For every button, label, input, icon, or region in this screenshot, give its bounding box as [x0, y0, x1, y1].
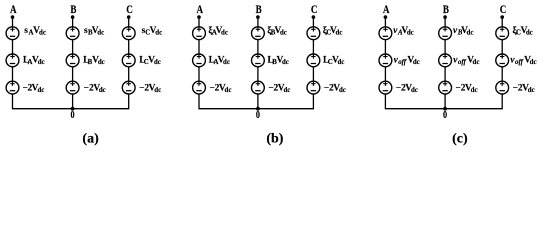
- voltage source phase C row 1 (fig c): [496, 27, 509, 40]
- value label phase C row 2 (fig c): [510, 55, 536, 66]
- svg-text:A: A: [383, 4, 390, 16]
- svg-text:0: 0: [71, 110, 75, 121]
- node 0 junction (fig a): [71, 107, 75, 111]
- wire between sources row1-2 phase B (fig b): [257, 40, 259, 54]
- value label phase B row 1 (fig a): [84, 26, 104, 37]
- value label phase B row 2 (fig a): [83, 55, 105, 66]
- wire between sources row2-3 phase C (fig a): [128, 67, 130, 81]
- svg-text:dc: dc: [280, 30, 287, 37]
- value label phase A row 1 (fig a): [24, 26, 46, 37]
- wire between sources row2-3 phase A (fig b): [198, 67, 200, 81]
- value label phase A row 2 (fig b): [209, 55, 230, 66]
- value label phase A row 1 (fig b): [208, 25, 228, 37]
- voltage source phase A row 3 (fig c): [379, 81, 392, 94]
- wire between sources row1-2 phase A (fig c): [384, 40, 386, 54]
- value label phase B row 3 (fig a): [84, 84, 106, 95]
- svg-text:C: C: [311, 4, 318, 16]
- voltage source phase C row 3 (fig b): [307, 81, 320, 94]
- value label phase B row 1 (fig c): [453, 26, 473, 37]
- wire between sources row2-3 phase B (fig a): [72, 67, 74, 81]
- voltage source phase B row 1 (fig c): [439, 27, 452, 40]
- svg-text:dc: dc: [38, 59, 45, 66]
- wire terminal A to first source (fig c): [384, 17, 386, 27]
- svg-text:dc: dc: [467, 30, 474, 37]
- wire between sources row2-3 phase C (fig c): [501, 67, 503, 81]
- svg-text:dc: dc: [39, 30, 46, 37]
- svg-text:C: C: [126, 4, 133, 16]
- voltage source phase B row 1 (fig b): [252, 27, 265, 40]
- svg-text:dc: dc: [530, 59, 537, 66]
- terminal node A (fig a): [11, 15, 15, 19]
- voltage source phase B row 3 (fig b): [252, 81, 265, 94]
- value label phase C row 3 (fig a): [139, 84, 161, 95]
- value label phase A row 2 (fig a): [23, 55, 45, 66]
- wire between sources row1-2 phase A (fig b): [198, 40, 200, 54]
- voltage source phase A row 1 (fig a): [6, 27, 19, 40]
- svg-text:dc: dc: [37, 87, 44, 94]
- value label phase A row 2 (fig c): [394, 55, 420, 66]
- terminal node A (fig c): [384, 15, 388, 19]
- svg-text:B: B: [256, 4, 262, 16]
- wire terminal B to first source (fig b): [257, 17, 259, 27]
- svg-text:dc: dc: [411, 87, 418, 94]
- terminal node B (fig c): [443, 15, 447, 19]
- wire between sources row2-3 phase B (fig b): [257, 67, 259, 81]
- bus wire with phase A/C down-wires (fig a): [13, 94, 129, 109]
- svg-text:C: C: [500, 4, 507, 16]
- wire between sources row1-2 phase C (fig a): [128, 40, 130, 54]
- voltage source phase C row 1 (fig a): [122, 27, 135, 40]
- value label phase C row 1 (fig c): [513, 25, 533, 37]
- voltage source phase A row 1 (fig b): [193, 27, 206, 40]
- voltage source phase B row 2 (fig c): [439, 54, 452, 67]
- wire phase B to bus (fig c): [444, 94, 446, 109]
- svg-text:(c): (c): [452, 131, 468, 146]
- value label phase A row 1 (fig c): [393, 26, 413, 37]
- bus wire with phase A/C down-wires (fig b): [199, 94, 313, 109]
- terminal node C (fig a): [127, 15, 131, 19]
- voltage source phase C row 3 (fig a): [122, 81, 135, 94]
- bus wire with phase A/C down-wires (fig c): [385, 94, 502, 109]
- svg-text:0: 0: [443, 110, 447, 121]
- value label phase B row 2 (fig b): [268, 55, 289, 66]
- svg-text:dc: dc: [337, 59, 344, 66]
- voltage source phase A row 2 (fig c): [379, 54, 392, 67]
- voltage source phase C row 1 (fig b): [307, 27, 320, 40]
- svg-text:off: off: [458, 59, 467, 66]
- wire between sources row2-3 phase A (fig c): [384, 67, 386, 81]
- svg-text:dc: dc: [221, 30, 228, 37]
- voltage source phase B row 3 (fig c): [439, 81, 452, 94]
- value label phase C row 1 (fig b): [323, 25, 343, 37]
- wire terminal A to first source (fig a): [12, 17, 14, 27]
- svg-text:dc: dc: [98, 59, 105, 66]
- svg-text:dc: dc: [407, 30, 414, 37]
- wire terminal A to first source (fig b): [198, 17, 200, 27]
- wire phase B to bus (fig b): [257, 94, 259, 109]
- value label phase A row 3 (fig a): [22, 84, 44, 95]
- svg-text:dc: dc: [154, 87, 161, 94]
- value label phase B row 3 (fig c): [456, 84, 478, 95]
- svg-text:dc: dc: [225, 87, 232, 94]
- value label phase B row 2 (fig c): [453, 55, 479, 66]
- svg-text:dc: dc: [97, 30, 104, 37]
- voltage source phase C row 2 (fig a): [122, 54, 135, 67]
- wire between sources row1-2 phase A (fig a): [12, 40, 14, 54]
- svg-text:dc: dc: [413, 59, 420, 66]
- svg-text:(b): (b): [266, 131, 283, 146]
- wire between sources row2-3 phase A (fig a): [12, 67, 14, 81]
- svg-text:off: off: [515, 59, 524, 66]
- wire terminal B to first source (fig c): [444, 17, 446, 27]
- node 0 junction (fig c): [443, 107, 447, 111]
- voltage source phase A row 1 (fig c): [379, 27, 392, 40]
- svg-text:dc: dc: [339, 87, 346, 94]
- terminal node B (fig b): [256, 15, 260, 19]
- wire terminal C to first source (fig b): [312, 17, 314, 27]
- value label phase C row 2 (fig a): [139, 55, 161, 66]
- voltage source phase A row 3 (fig a): [6, 81, 19, 94]
- value label phase C row 3 (fig b): [324, 84, 346, 95]
- svg-text:dc: dc: [223, 59, 230, 66]
- voltage source phase A row 2 (fig a): [6, 54, 19, 67]
- svg-text:dc: dc: [473, 59, 480, 66]
- voltage source phase B row 1 (fig a): [66, 27, 79, 40]
- voltage source phase A row 2 (fig b): [193, 54, 206, 67]
- terminal node A (fig b): [197, 15, 201, 19]
- svg-text:dc: dc: [283, 87, 290, 94]
- wire between sources row1-2 phase B (fig c): [444, 40, 446, 54]
- voltage source phase B row 2 (fig a): [66, 54, 79, 67]
- svg-text:A: A: [10, 4, 17, 16]
- svg-text:dc: dc: [335, 30, 342, 37]
- voltage source phase A row 3 (fig b): [193, 81, 206, 94]
- svg-text:B: B: [443, 4, 449, 16]
- wire between sources row1-2 phase B (fig a): [72, 40, 74, 54]
- terminal node B (fig a): [71, 15, 75, 19]
- wire between sources row1-2 phase C (fig c): [501, 40, 503, 54]
- wire terminal C to first source (fig c): [501, 17, 503, 27]
- wire between sources row2-3 phase C (fig b): [312, 67, 314, 81]
- svg-text:dc: dc: [471, 87, 478, 94]
- svg-text:0: 0: [256, 110, 260, 121]
- svg-text:(a): (a): [82, 131, 99, 146]
- voltage source phase B row 3 (fig a): [66, 81, 79, 94]
- wire between sources row1-2 phase C (fig b): [312, 40, 314, 54]
- terminal node C (fig b): [312, 15, 316, 19]
- svg-text:A: A: [197, 4, 204, 16]
- terminal node C (fig c): [500, 15, 504, 19]
- value label phase C row 3 (fig c): [513, 84, 535, 95]
- svg-text:dc: dc: [282, 59, 289, 66]
- svg-text:dc: dc: [526, 30, 533, 37]
- value label phase B row 3 (fig b): [268, 84, 290, 95]
- wire terminal B to first source (fig a): [72, 17, 74, 27]
- voltage source phase C row 3 (fig c): [496, 81, 509, 94]
- svg-text:B: B: [70, 4, 76, 16]
- value label phase A row 3 (fig c): [396, 84, 418, 95]
- value label phase A row 3 (fig b): [209, 84, 231, 95]
- svg-text:dc: dc: [99, 87, 106, 94]
- voltage source phase C row 2 (fig b): [307, 54, 320, 67]
- svg-text:dc: dc: [528, 87, 535, 94]
- wire phase B to bus (fig a): [72, 94, 74, 109]
- voltage source phase B row 2 (fig b): [252, 54, 265, 67]
- value label phase C row 2 (fig b): [323, 55, 344, 66]
- voltage source phase C row 2 (fig c): [496, 54, 509, 67]
- svg-text:dc: dc: [154, 59, 161, 66]
- wire terminal C to first source (fig a): [128, 17, 130, 27]
- value label phase C row 1 (fig a): [142, 26, 163, 37]
- svg-text:off: off: [398, 59, 407, 66]
- svg-text:dc: dc: [155, 30, 162, 37]
- node 0 junction (fig b): [256, 107, 260, 111]
- value label phase B row 1 (fig b): [267, 25, 287, 37]
- wire between sources row2-3 phase B (fig c): [444, 67, 446, 81]
